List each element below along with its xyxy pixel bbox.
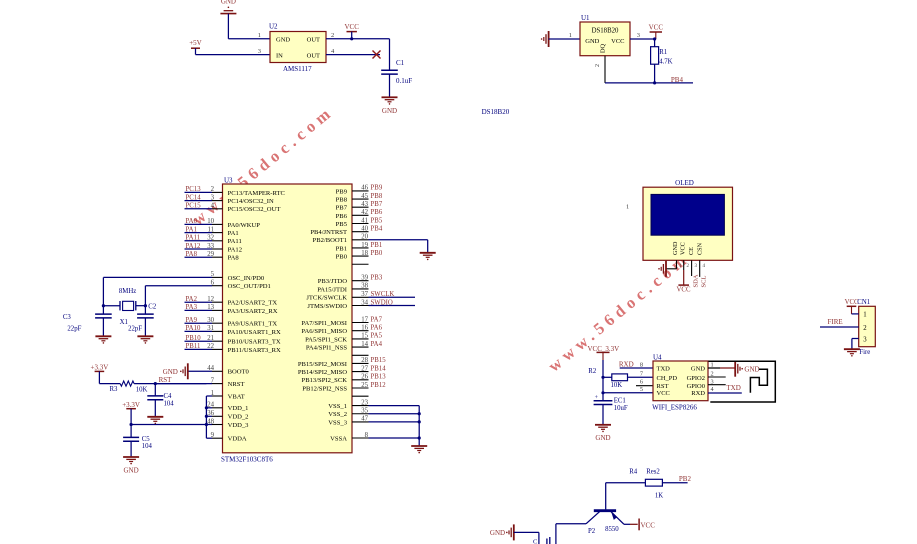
svg-text:VBAT: VBAT [228, 393, 245, 400]
pin number 2 (U2) [331, 32, 334, 39]
pin 47 (VSS_3) [328, 416, 419, 427]
svg-text:R3: R3 [110, 386, 119, 393]
pin 19 PB1 (PB1) [336, 242, 383, 253]
svg-text:8: 8 [365, 432, 369, 439]
wire R2 to CH_PD [628, 376, 654, 378]
pin number 1 (U1) [569, 32, 572, 39]
svg-text:PB4: PB4 [371, 225, 383, 232]
wire ground to buzzer cap [514, 532, 539, 544]
pin 28 PB15 (PB15/SPI2_MOSI) [298, 357, 386, 368]
svg-text:2: 2 [595, 64, 601, 67]
svg-text:PB13/SPI2_SCK: PB13/SPI2_SCK [302, 377, 348, 384]
svg-text:SWDIO: SWDIO [371, 299, 393, 306]
svg-text:19: 19 [361, 242, 368, 249]
svg-text:4.7K: 4.7K [659, 59, 672, 66]
pin label 1 (OLED left) [626, 204, 629, 211]
wire collector to R4 [606, 483, 646, 510]
svg-text:1: 1 [211, 390, 214, 397]
pin 17 PA7 (PA7/SPI1_MOSI) [301, 316, 382, 327]
svg-text:14: 14 [361, 341, 368, 348]
junction R2 left [601, 376, 604, 379]
svg-text:GPIO2: GPIO2 [687, 375, 705, 382]
pin 13 PA3 (PA3/USART2_RX) [185, 304, 278, 315]
svg-text:www.56doc.com: www.56doc.com [544, 248, 693, 375]
pin 16 PA6 (PA6/SPI1_MISO) [301, 325, 382, 336]
svg-text:PB9: PB9 [336, 188, 348, 195]
svg-text:33: 33 [207, 243, 214, 250]
wire R1 to PB4 line [654, 64, 656, 83]
pin 7 (NRST) [155, 377, 244, 388]
ground (CN1) [844, 349, 860, 356]
svg-text:PB14/SPI2_MISO: PB14/SPI2_MISO [298, 369, 347, 376]
svg-text:VSS_3: VSS_3 [328, 419, 347, 426]
transistor P2 8550 (PNP) [586, 511, 624, 535]
pin 2 PC13 (PC13/TAMPER-RTC) [185, 186, 286, 197]
svg-text:CH_PD: CH_PD [657, 375, 678, 382]
svg-text:PB7: PB7 [371, 201, 383, 208]
svg-text:VCC: VCC [344, 23, 359, 31]
connector CN1 [845, 299, 876, 347]
wire U4 pin1 to ground [708, 367, 735, 369]
pin 22 PB11 (PB11/USART3_RX) [185, 343, 282, 354]
svg-text:PB12/SPI2_NSS: PB12/SPI2_NSS [302, 385, 347, 392]
svg-text:C: C [533, 539, 537, 544]
wire OLED pin4 (SCL) [699, 260, 701, 277]
wire U2 pin 2 to C1 top corner [326, 39, 390, 71]
svg-text:PA12: PA12 [186, 243, 201, 250]
pin 37 SWCLK (JTCK/SWCLK) [306, 291, 415, 302]
power +3.3V (VDD rail) [122, 401, 140, 424]
pin 43 PB7 (PB7) [336, 201, 383, 212]
svg-text:Fire: Fire [859, 349, 870, 356]
pin number 1 (U2) [258, 32, 261, 39]
U4 right pin numbers 1 2 3 4 [711, 362, 715, 394]
svg-text:32: 32 [207, 235, 214, 242]
svg-text:PA2/USART2_TX: PA2/USART2_TX [228, 300, 278, 307]
svg-text:3: 3 [695, 264, 698, 269]
svg-text:22: 22 [207, 343, 214, 350]
svg-text:2: 2 [711, 370, 714, 377]
svg-text:VDD_2: VDD_2 [228, 414, 249, 421]
svg-text:3: 3 [211, 194, 215, 201]
net label SDA (rotated) [692, 274, 699, 287]
svg-text:WIFI_ESP8266: WIFI_ESP8266 [652, 403, 697, 411]
svg-text:C2: C2 [148, 304, 157, 311]
svg-text:PC15/OSC32_OUT: PC15/OSC32_OUT [228, 206, 281, 213]
wire VSS bus to ground [418, 438, 420, 446]
pin 34 SWDIO (JTMS/SWDIO) [307, 299, 415, 310]
capacitor EC1 10uF (polar) [594, 395, 628, 425]
ground (C5) [123, 457, 139, 474]
pin 25 PB12 (PB12/SPI2_NSS) [302, 382, 386, 393]
svg-text:0.1uF: 0.1uF [396, 77, 412, 85]
svg-text:VSS_2: VSS_2 [328, 411, 347, 418]
svg-text:+3.3V: +3.3V [91, 364, 109, 372]
svg-text:30: 30 [207, 317, 214, 324]
svg-text:OSC_OUT/PD1: OSC_OUT/PD1 [228, 283, 271, 290]
svg-text:PB0: PB0 [371, 250, 383, 257]
svg-text:PA15/JTDI: PA15/JTDI [317, 286, 347, 293]
pin 46 PB9 (PB9) [336, 185, 383, 196]
power VCC (CN1 pin1) [847, 306, 857, 314]
svg-text:GND: GND [382, 107, 397, 115]
svg-text:PB7: PB7 [336, 205, 348, 212]
svg-text:3: 3 [258, 48, 261, 55]
svg-text:1K: 1K [655, 493, 663, 500]
svg-text:PA9: PA9 [186, 317, 198, 324]
junction pin3/VCC/R1 [653, 37, 656, 40]
capacitor C5 104 [123, 425, 152, 458]
pin 27 PB14 (PB14/SPI2_MISO) [298, 365, 386, 376]
svg-text:TXD: TXD [657, 365, 671, 372]
svg-text:PA6: PA6 [371, 325, 383, 332]
regulator U2 AMS1117 [269, 23, 326, 73]
junction VDD_1 [205, 406, 208, 409]
svg-text:10K: 10K [611, 382, 623, 389]
OLED pin numbers 1 2 3 4 [679, 264, 706, 269]
wire U1 pin 3 to VCC/R1 [630, 38, 655, 40]
svg-text:FIRE: FIRE [828, 318, 843, 326]
ground (BOOT0, rotated) [163, 363, 188, 379]
pin 38 (PA15/JTDI) [317, 283, 368, 294]
wire +3.3V rail to VDD pins [131, 424, 206, 426]
wire GND to U2 pin 1 [228, 14, 270, 39]
OLED pin names GND VCC CE CSN [672, 241, 704, 255]
module U4 WIFI_ESP8266 [652, 354, 708, 412]
wire U4 pin2 stub [708, 376, 726, 378]
antenna meander [750, 369, 767, 393]
svg-text:38: 38 [361, 283, 368, 290]
pin 48 (VDD_3) [206, 418, 249, 429]
wire U2 pin 4 [326, 54, 380, 56]
ground GND (below C1) [382, 97, 398, 115]
svg-text:PA10/USART1_RX: PA10/USART1_RX [228, 329, 281, 336]
pin 24 (VDD_1) [206, 402, 248, 413]
resistor R2 10K [603, 374, 628, 389]
svg-text:PB0: PB0 [336, 254, 348, 261]
svg-text:PA12: PA12 [228, 246, 242, 253]
svg-text:RST: RST [159, 376, 173, 384]
svg-text:CSN: CSN [697, 242, 704, 255]
pin 1 (VBAT) [206, 390, 244, 401]
net label RXD [619, 361, 634, 369]
pin stub (nc) [352, 395, 369, 397]
svg-text:PB15: PB15 [371, 357, 387, 364]
power +3.3V (R3) [91, 364, 109, 384]
power VCC_3.3V [588, 345, 620, 360]
svg-text:VCC: VCC [649, 24, 664, 32]
svg-text:PC15: PC15 [186, 203, 202, 210]
net label TXD [726, 384, 740, 392]
svg-text:4: 4 [703, 264, 706, 269]
svg-text:GND: GND [490, 529, 505, 537]
svg-text:JTCK/SWCLK: JTCK/SWCLK [306, 295, 347, 302]
wire RXD to TXD pin 8 [620, 367, 653, 369]
no-connect X at pin 4 [373, 51, 381, 59]
ground (OLED pin1, rotated) [658, 261, 666, 277]
svg-text:18: 18 [361, 250, 368, 257]
svg-text:3: 3 [637, 32, 640, 39]
svg-text:JTMS/SWDIO: JTMS/SWDIO [307, 303, 347, 310]
power VCC (emitter, rotated) [639, 519, 655, 531]
svg-text:PA8: PA8 [186, 251, 198, 258]
svg-text:PB3: PB3 [371, 275, 383, 282]
svg-text:U1: U1 [581, 14, 590, 22]
svg-text:43: 43 [361, 201, 368, 208]
wire OLED pin2 to VCC [683, 260, 685, 285]
power +5V [189, 39, 202, 54]
svg-text:P2: P2 [588, 528, 596, 535]
pin 10 PA0 (PA0/WKUP) [185, 218, 261, 229]
wire VCC to pin 5 [603, 392, 653, 394]
svg-text:GND: GND [691, 365, 705, 372]
svg-text:PC13: PC13 [186, 186, 202, 193]
pin 9 (VDDA) [206, 432, 246, 443]
svg-text:104: 104 [142, 443, 153, 450]
svg-text:47: 47 [361, 416, 368, 423]
pin 4 PC15 (PC15/OSC32_OUT) [185, 203, 281, 214]
ground (C2) [137, 336, 153, 343]
svg-text:PB12: PB12 [371, 382, 387, 389]
svg-text:PB3/JTDO: PB3/JTDO [318, 278, 348, 285]
svg-text:41: 41 [361, 217, 368, 224]
wire U4 pin4 (TXD) [708, 392, 742, 394]
U4 left pin numbers 8 7 6 5 [640, 362, 643, 394]
junction VCC row [601, 391, 604, 394]
svg-text:OUT: OUT [307, 52, 320, 59]
net label FIRE [828, 318, 843, 326]
svg-text:U2: U2 [269, 23, 278, 31]
svg-text:TXD: TXD [726, 384, 740, 392]
svg-text:VCC: VCC [657, 390, 670, 397]
pin number 3 (U1) [637, 32, 640, 39]
svg-text:PC14: PC14 [186, 194, 202, 201]
crystal X1 8MHz [103, 288, 145, 326]
svg-text:26: 26 [361, 374, 368, 381]
designator R2 [588, 368, 597, 375]
svg-text:10: 10 [207, 218, 214, 225]
svg-text:PB8: PB8 [336, 196, 348, 203]
svg-text:RST: RST [657, 383, 669, 390]
svg-text:PA6/SPI1_MISO: PA6/SPI1_MISO [301, 328, 347, 335]
junction RST/C4 [154, 382, 157, 385]
pin 26 PB13 (PB13/SPI2_SCK) [302, 374, 387, 385]
junction VSSA [418, 436, 421, 439]
svg-text:PB15/SPI2_MOSI: PB15/SPI2_MOSI [298, 361, 347, 368]
svg-text:AMS1117: AMS1117 [283, 65, 312, 73]
capacitor C1 0.1uF [381, 59, 412, 85]
IC U3 STM32F103C8T6 body [221, 177, 352, 464]
svg-text:PB1: PB1 [336, 245, 347, 252]
svg-text:VCC: VCC [641, 522, 656, 530]
svg-text:48: 48 [207, 418, 214, 425]
pin 3 PC14 (PC14/OSC32_IN) [185, 194, 275, 205]
wire OLED pin3 (SDA) [691, 260, 693, 276]
svg-text:12: 12 [207, 296, 214, 303]
pin 6 (OSC_OUT/PD1) [145, 280, 270, 291]
svg-text:EC1: EC1 [614, 397, 626, 404]
ground (EC1) [595, 425, 611, 442]
pin 33 PA12 (PA12) [185, 243, 243, 254]
svg-text:1: 1 [569, 32, 572, 39]
wire ground to U1 pin 1 [549, 38, 580, 40]
svg-text:PB14: PB14 [371, 365, 387, 372]
capacitor C4 104 [147, 384, 174, 417]
antenna outline [708, 361, 775, 402]
pin 5 (OSC_IN/PD0) [103, 271, 265, 282]
junction crystal left [102, 304, 105, 307]
pin 32 PA11 (PA11) [185, 235, 242, 246]
svg-text:22pF: 22pF [67, 326, 81, 333]
svg-text:PB4/JNTRST: PB4/JNTRST [310, 229, 347, 236]
svg-text:OSC_IN/PD0: OSC_IN/PD0 [228, 275, 265, 282]
wire VCC to CN1 pin 1 [852, 313, 859, 315]
pin 31 PA10 (PA10/USART1_RX) [185, 325, 282, 336]
svg-text:Res2: Res2 [646, 469, 660, 476]
svg-text:RXD: RXD [691, 390, 705, 397]
junction VSS_2 [418, 412, 421, 415]
svg-text:OUT: OUT [307, 37, 320, 44]
svg-text:GND: GND [585, 38, 599, 45]
svg-text:PB6: PB6 [336, 213, 348, 220]
svg-text:DS18B20: DS18B20 [482, 108, 510, 116]
svg-text:C1: C1 [396, 59, 405, 67]
svg-text:CN1: CN1 [857, 299, 870, 306]
display OLED [643, 179, 733, 260]
svg-text:GND: GND [276, 37, 290, 44]
wire FIRE to CN1 pin 2 [820, 326, 859, 328]
svg-text:PA11: PA11 [186, 235, 201, 242]
svg-text:PB11: PB11 [186, 343, 201, 350]
svg-text:2: 2 [331, 32, 334, 39]
pin number 3 (U2) [258, 48, 261, 55]
svg-text:PA0: PA0 [186, 218, 198, 225]
svg-text:22pF: 22pF [128, 326, 142, 333]
svg-text:NRST: NRST [228, 381, 245, 388]
svg-text:36: 36 [207, 410, 214, 417]
pin stub (nc) [352, 354, 369, 356]
svg-text:10uF: 10uF [614, 405, 628, 412]
junction crystal right [144, 304, 147, 307]
svg-text:R1: R1 [659, 49, 667, 56]
wire PB2/BOOT1 to ground [427, 240, 429, 253]
wire VCC_3.3V down to EC1 [602, 360, 604, 401]
svg-text:R2: R2 [588, 368, 597, 375]
svg-text:35: 35 [361, 408, 368, 415]
svg-text:34: 34 [361, 299, 368, 306]
pin 40 PB4 (PB4/JNTRST) [310, 225, 382, 236]
watermark www.56doc.com (upper) [188, 102, 337, 229]
svg-text:1: 1 [258, 32, 261, 39]
svg-text:11: 11 [207, 226, 214, 233]
svg-text:45: 45 [361, 193, 368, 200]
capacitor C3 22pF [63, 306, 112, 337]
pin 42 PB6 (PB6) [336, 209, 383, 220]
svg-text:C3: C3 [63, 314, 72, 321]
svg-text:U3: U3 [224, 177, 233, 185]
ground (C4) [147, 417, 163, 424]
svg-text:46: 46 [361, 185, 368, 192]
svg-text:37: 37 [361, 291, 368, 298]
ground (DS18B20 pin 1, rotated) [541, 31, 549, 47]
svg-text:SWCLK: SWCLK [371, 291, 395, 298]
svg-text:10K: 10K [136, 386, 148, 393]
pin 11 PA1 (PA1) [185, 226, 239, 237]
svg-text:C4: C4 [164, 393, 173, 400]
resistor R4 1K [645, 479, 663, 499]
pin 21 PB10 (PB10/USART3_TX) [185, 335, 281, 346]
svg-text:8: 8 [640, 362, 643, 369]
svg-text:1: 1 [863, 312, 866, 319]
pin number 2 (U1, rotated) [595, 64, 601, 67]
pin 15 PA5 (PA5/SPI1_SCK) [305, 333, 382, 344]
net label SCL (rotated) [701, 276, 708, 288]
svg-text:PB2/BOOT1: PB2/BOOT1 [313, 237, 347, 244]
power VCC (DS18B20) [649, 24, 664, 40]
svg-text:PA7: PA7 [371, 316, 383, 323]
svg-text:PC14/OSC32_IN: PC14/OSC32_IN [228, 198, 274, 205]
svg-text:GND: GND [124, 466, 139, 474]
svg-text:15: 15 [361, 333, 368, 340]
svg-text:23: 23 [361, 399, 368, 406]
pin 14 PA4 (PA4/SPI1_NSS) [306, 341, 383, 352]
power VCC (OLED) [677, 285, 691, 293]
svg-text:PA11: PA11 [228, 238, 242, 245]
wire OSC_OUT to crystal node [144, 286, 146, 306]
text DS18B20 (section caption) [482, 108, 510, 116]
svg-text:GND: GND [744, 366, 759, 374]
wire VSS bus vertical [418, 406, 420, 438]
svg-text:GND: GND [672, 241, 679, 255]
svg-text:9: 9 [211, 432, 215, 439]
svg-text:PA3: PA3 [186, 304, 198, 311]
svg-text:1: 1 [626, 204, 629, 211]
net label PB4 [671, 76, 684, 84]
svg-text:5: 5 [211, 271, 215, 278]
svg-text:PC13/TAMPER-RTC: PC13/TAMPER-RTC [228, 190, 286, 197]
wire VCC node to R1 [654, 39, 656, 47]
resistor R3 10K [99, 381, 155, 393]
svg-text:BOOT0: BOOT0 [228, 369, 250, 376]
sensor U1 DS18B20 [580, 14, 630, 56]
svg-text:VCC: VCC [677, 287, 691, 294]
svg-text:PA1: PA1 [186, 226, 197, 233]
ground (C3) [95, 336, 111, 343]
svg-text:GND: GND [595, 434, 610, 442]
svg-text:VDDA: VDDA [228, 436, 247, 443]
svg-text:VCC: VCC [680, 242, 687, 255]
pin 45 PB8 (PB8) [336, 193, 383, 204]
pin stub (nc) [352, 263, 369, 265]
svg-text:39: 39 [361, 275, 368, 282]
svg-text:GPIO0: GPIO0 [687, 383, 705, 390]
svg-text:PA5: PA5 [371, 333, 383, 340]
svg-text:DQ: DQ [600, 44, 607, 54]
svg-text:PA10: PA10 [186, 325, 201, 332]
svg-text:104: 104 [164, 401, 175, 408]
junction rail/C5 [130, 423, 133, 426]
svg-text:40: 40 [361, 225, 368, 232]
svg-text:17: 17 [361, 316, 368, 323]
svg-text:PB10: PB10 [186, 335, 202, 342]
net label RST [159, 376, 173, 384]
ground (U4 pin1, rotated right) [735, 361, 759, 377]
svg-text:PB4: PB4 [671, 76, 684, 84]
svg-text:PA2: PA2 [186, 296, 198, 303]
svg-text:R4: R4 [629, 469, 638, 476]
designator R4 Res2 [629, 469, 660, 476]
svg-text:8MHz: 8MHz [119, 288, 136, 295]
